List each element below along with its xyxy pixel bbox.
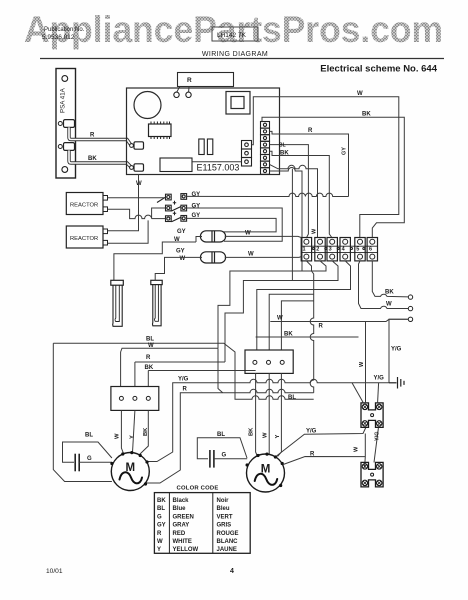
wire BK lower run — [256, 336, 359, 338]
wire GY switch row2 right run to terminal 3 — [187, 208, 283, 241]
svg-text:W: W — [115, 433, 121, 439]
svg-text:E1157.003: E1157.003 — [197, 163, 240, 173]
svg-text:W: W — [277, 316, 283, 322]
svg-text:Y/G: Y/G — [374, 376, 385, 382]
wire BK from PCB pin1 to right side and terminal 6 — [262, 117, 404, 237]
wire BK thick harness PSA to PCB — [69, 150, 131, 166]
wire W run to H-block2 — [218, 348, 223, 393]
svg-text:Blue: Blue — [173, 506, 187, 512]
svg-text:5.9536.012: 5.9536.012 — [42, 34, 75, 41]
svg-text:W: W — [148, 343, 154, 349]
PCB board E1157.003 outline — [127, 88, 280, 175]
svg-text:W: W — [386, 302, 392, 308]
connector strip 3pin on PCB — [242, 141, 252, 167]
svg-text:GY: GY — [157, 523, 166, 529]
transformer square inner — [231, 97, 244, 109]
svg-text:Electrical scheme No. 644: Electrical scheme No. 644 — [320, 64, 437, 75]
svg-text:GY: GY — [176, 249, 185, 255]
svg-text:R: R — [187, 77, 192, 84]
svg-text:Noir: Noir — [217, 498, 230, 504]
svg-text:BK: BK — [145, 365, 154, 371]
capacitor C motor2 — [210, 450, 214, 468]
switch S3 — [166, 216, 187, 222]
wire BL loop motor2 — [197, 438, 247, 459]
thermostat T1 box — [111, 387, 159, 411]
svg-text:3: 3 — [329, 247, 332, 253]
wire BK mid run to thermostat1 — [148, 370, 255, 372]
svg-text:R: R — [90, 133, 95, 139]
reactor 2 box — [66, 226, 103, 248]
wire reactor2 tab2 up join — [108, 220, 149, 243]
svg-text:PSA 41A: PSA 41A — [60, 87, 67, 113]
wire YG diagonals into H-block1 — [352, 383, 363, 403]
svg-text:BL: BL — [288, 395, 296, 401]
PSA41A mounting hole top — [62, 76, 68, 82]
wire W vertical to H-block1 — [365, 322, 367, 403]
svg-text:BK: BK — [143, 427, 149, 436]
svg-text:JAUNE: JAUNE — [217, 547, 237, 553]
PSA41A mounting hole bottom — [62, 167, 68, 173]
heater element 1 — [111, 280, 124, 326]
wire lead 2 R box — [188, 87, 190, 93]
color code table — [154, 493, 250, 554]
thermal fuse F1 capsule — [200, 231, 225, 242]
PCB pad circle 1 — [174, 92, 179, 97]
wire R mid run to thermostat1 — [135, 361, 225, 363]
svg-text:BK: BK — [362, 112, 371, 118]
linkage marks between switch poles — [173, 201, 176, 205]
svg-text:BL: BL — [157, 506, 165, 512]
wire BL left vertical to motor1 — [53, 343, 112, 481]
wire fan f1 terminal2 to W line — [218, 261, 326, 348]
svg-text:G: G — [222, 453, 227, 459]
svg-text:REACTOR: REACTOR — [70, 236, 98, 242]
svg-text:GY: GY — [177, 229, 186, 235]
svg-text:10/01: 10/01 — [46, 568, 63, 575]
svg-text:R: R — [310, 452, 315, 458]
transformer square outer — [226, 92, 250, 115]
wire branch vertical to f2 — [291, 169, 293, 281]
svg-text:Y: Y — [275, 435, 281, 439]
svg-text:Y/G: Y/G — [306, 429, 317, 435]
svg-text:W: W — [357, 91, 363, 97]
svg-text:W: W — [248, 252, 254, 258]
svg-text:5: 5 — [356, 247, 359, 253]
wire W from PCB down to reactor2 — [108, 175, 139, 231]
reactor 1 box — [66, 193, 103, 215]
svg-text:R: R — [146, 355, 151, 361]
wire YG motor1 to ground rail — [147, 379, 390, 461]
svg-text:BK: BK — [280, 151, 289, 157]
wire fan f3 terminal4 — [257, 261, 351, 350]
motor M1 — [111, 453, 149, 491]
PCB plug P2 — [130, 166, 134, 170]
wire lead 1 R box — [177, 87, 180, 93]
svg-text:W: W — [174, 237, 180, 243]
wire YG plug to ground drop — [389, 319, 408, 383]
wire thermostat1 drops to motor1 — [121, 410, 123, 453]
plug terminal circle BK — [408, 295, 412, 299]
svg-text:BLANC: BLANC — [217, 539, 239, 545]
thermal fuse F2 capsule — [200, 252, 225, 263]
PCB plug P1 — [130, 144, 134, 148]
H-block connector 2 — [361, 462, 383, 487]
connector strip 8pin on PCB edge — [261, 122, 270, 175]
svg-text:2: 2 — [316, 247, 319, 253]
model number box LH1427K — [212, 27, 258, 41]
wire F1 left lead — [114, 242, 196, 280]
svg-text:W: W — [354, 446, 360, 452]
svg-text:GY: GY — [192, 192, 201, 198]
svg-text:G: G — [157, 514, 162, 520]
wire W mid run to thermostat1 — [121, 348, 218, 352]
earth ground symbol — [389, 377, 404, 389]
wire R motor2 to H-block2 — [283, 457, 365, 465]
svg-text:BL: BL — [85, 433, 93, 439]
wire YG H-block1 to H-block2 — [374, 428, 378, 462]
svg-text:BL: BL — [217, 432, 225, 438]
svg-text:R: R — [157, 531, 162, 537]
wire heater2 lead up to F2 — [155, 257, 202, 280]
component box on PCB — [160, 158, 192, 172]
wire R thick harness PSA to PCB — [69, 127, 131, 144]
resistor R jumper box above PCB — [178, 73, 234, 87]
svg-text:BK: BK — [284, 332, 293, 338]
plug terminal circle W — [408, 306, 412, 310]
svg-text:4: 4 — [230, 568, 234, 575]
plug terminal circle YG — [408, 317, 412, 321]
svg-text:Y/G: Y/G — [375, 432, 381, 441]
switch S1 — [157, 194, 187, 203]
wire F1 right to terminal1 W — [225, 236, 302, 237]
wire switch S3 left — [152, 218, 166, 220]
wire BK from PCB pin5 to terminal 3 — [270, 151, 332, 237]
wire from PCB pin8 — [270, 168, 303, 272]
wire reactor1 to switch S2 — [108, 208, 166, 219]
svg-text:WHITE: WHITE — [173, 539, 192, 545]
wire thermostat2 drops to motor2 — [256, 373, 258, 456]
svg-text:Black: Black — [173, 498, 190, 504]
svg-text:ROUGE: ROUGE — [217, 531, 239, 537]
wire fan f6 — [281, 301, 313, 350]
wire capacitor to motor1 — [79, 461, 112, 463]
svg-text:4: 4 — [342, 247, 346, 253]
svg-text:BK: BK — [157, 498, 166, 504]
wire fan f2 terminal3 to R line — [225, 261, 338, 362]
svg-text:R: R — [183, 386, 188, 392]
svg-text:GY: GY — [342, 147, 348, 155]
svg-text:W: W — [312, 228, 318, 234]
svg-text:BL: BL — [146, 337, 154, 343]
connector PSA41A body — [56, 69, 76, 179]
wire R from PCB pin2 down to switch row1 — [270, 131, 349, 196]
switch S2 — [166, 205, 187, 211]
motor M2 — [247, 454, 285, 492]
svg-text:W: W — [157, 539, 163, 545]
svg-text:R: R — [319, 324, 324, 330]
svg-text:Publication No.: Publication No. — [44, 27, 85, 33]
capacitor C2 on PCB — [207, 139, 212, 155]
svg-text:G: G — [87, 456, 92, 462]
svg-text:Y: Y — [157, 547, 161, 553]
wire GY switch row3 right run — [187, 218, 277, 232]
wire fan f4 terminal1 — [306, 261, 313, 393]
wire fan f5 — [269, 294, 314, 350]
wire R motor1 to motor2 rail — [145, 389, 314, 483]
svg-text:AppliancePartsPros.com: AppliancePartsPros.com — [24, 9, 443, 50]
wire BL left long run — [53, 343, 313, 399]
svg-text:WIRING DIAGRAM: WIRING DIAGRAM — [202, 51, 268, 58]
PSA41A pin 1 — [58, 122, 62, 126]
svg-text:6: 6 — [369, 247, 372, 253]
svg-text:Bleu: Bleu — [217, 506, 230, 512]
wire YG motor2 to H-block1 — [277, 427, 366, 456]
wire capacitor to motor2 — [214, 458, 247, 460]
header rule — [40, 58, 444, 60]
wire 3pin strip to component box — [192, 161, 241, 163]
thermostat T2 box — [245, 350, 293, 373]
svg-text:GREEN: GREEN — [173, 514, 194, 520]
heater element 2 — [151, 280, 162, 326]
svg-text:W: W — [359, 361, 365, 367]
H-block connector 1 — [361, 403, 383, 428]
wire BL loop motor1 — [63, 442, 112, 462]
wire W lower run to circle3 — [270, 319, 408, 321]
svg-text:VERT: VERT — [217, 514, 233, 520]
capacitor C motor1 — [75, 454, 79, 472]
svg-text:Y/G: Y/G — [391, 347, 402, 353]
svg-text:W: W — [245, 231, 251, 237]
svg-text:Y/G: Y/G — [178, 377, 189, 383]
PCB pad circle 2 — [186, 92, 191, 97]
svg-text:YELLOW: YELLOW — [173, 547, 199, 553]
wire BL from PCB pin4 to terminal 1 — [270, 145, 309, 238]
wire F2 right W run to terminal1 bottom — [225, 256, 302, 259]
IC U1 — [149, 124, 172, 137]
svg-text:W: W — [263, 432, 269, 438]
svg-text:BL: BL — [279, 143, 286, 149]
svg-text:1: 1 — [303, 247, 306, 253]
wire terminal5 bottom to plug W — [359, 261, 409, 309]
wire reactor1 to switch S1 — [108, 197, 166, 199]
terminal block TB1 — [301, 238, 377, 261]
wire GY switch row1 right run — [187, 193, 349, 196]
svg-text:GRIS: GRIS — [217, 523, 232, 529]
svg-text:BK: BK — [385, 290, 394, 296]
svg-text:GRAY: GRAY — [173, 523, 190, 529]
svg-text:REACTOR: REACTOR — [70, 203, 98, 209]
capacitor C1 on PCB — [199, 139, 204, 155]
svg-text:Y: Y — [129, 435, 135, 439]
wire W from PCB strip to right side and terminal 5 — [252, 97, 399, 238]
terminal numbers 1-6 — [303, 247, 373, 253]
svg-text:COLOR CODE: COLOR CODE — [177, 486, 219, 492]
svg-text:R: R — [308, 128, 313, 134]
relay coil big circle — [134, 92, 161, 119]
wire terminal6 bottom to plug BK — [372, 261, 408, 297]
svg-text:BK: BK — [249, 427, 255, 436]
svg-text:RED: RED — [173, 531, 186, 537]
wire from PCB pin7 to terminal 2 — [270, 164, 318, 237]
svg-text:LH142 7K: LH142 7K — [217, 32, 247, 39]
PSA41A pin 2 — [58, 145, 62, 149]
svg-text:BK: BK — [88, 156, 97, 162]
